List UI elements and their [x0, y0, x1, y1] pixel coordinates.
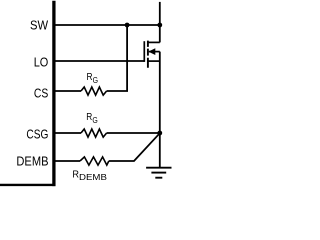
svg-text:DEMB: DEMB	[79, 172, 107, 182]
node junction CSG/DEMB/source/ground	[157, 131, 162, 136]
wire SW pin to drain rail	[56, 24, 160, 26]
svg-text:SW: SW	[30, 18, 49, 33]
svg-text:R: R	[72, 170, 79, 181]
svg-text:DEMB: DEMB	[16, 154, 48, 169]
IC outline right edge	[52, 1, 55, 186]
transistor Q1 body arrow head	[148, 48, 155, 55]
svg-text:R: R	[86, 112, 92, 123]
IC outline bottom edge	[0, 184, 56, 186]
transistor Q1 N-MOSFET gate plate	[143, 41, 145, 62]
svg-text:G: G	[92, 115, 97, 125]
wire CSG pin to resistor	[56, 132, 82, 134]
wire CS pin to resistor	[56, 90, 82, 92]
transistor Q1 channel dashes	[147, 41, 149, 68]
wire DEMB resistor to ground node (diagonal)	[109, 133, 160, 161]
wire DEMB pin to resistor	[56, 160, 81, 162]
svg-text:CS: CS	[34, 86, 48, 101]
wire CS resistor to SW node	[107, 27, 128, 91]
svg-text:G: G	[93, 75, 98, 85]
wire LO pin to gate	[56, 60, 145, 62]
resistor RG (CS)	[81, 87, 107, 95]
wire source rail down to ground node	[159, 52, 161, 167]
ground symbol	[146, 167, 171, 169]
resistor RG (CSG)	[81, 129, 107, 137]
wire CSG resistor to ground node	[107, 132, 160, 134]
transistor Q1 body arrow line	[149, 51, 160, 53]
svg-text:CSG: CSG	[26, 127, 48, 142]
svg-text:LO: LO	[34, 55, 49, 70]
transistor Q1 source stub	[148, 60, 160, 62]
resistor RDEMB	[80, 157, 109, 165]
transistor Q1 drain stub	[148, 41, 160, 43]
svg-text:R: R	[87, 72, 93, 83]
wire drain rail (top)	[159, 2, 161, 43]
node junction SW/drain rail	[157, 23, 162, 28]
node junction SW/CS branch	[125, 23, 130, 28]
